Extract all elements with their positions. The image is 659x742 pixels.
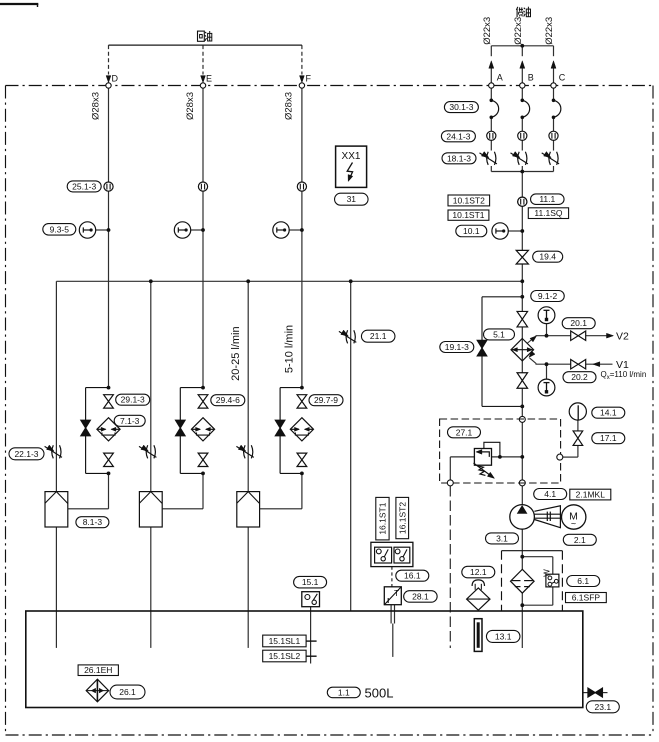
svg-text:A: A	[497, 73, 503, 83]
svg-text:18.1-3: 18.1-3	[447, 153, 471, 163]
svg-text:11.1: 11.1	[539, 194, 555, 204]
svg-text:B: B	[528, 73, 534, 83]
svg-text:XX1: XX1	[342, 151, 361, 162]
svg-text:28.1: 28.1	[412, 591, 429, 601]
svg-text:6.1: 6.1	[577, 576, 589, 586]
svg-text:23.1: 23.1	[595, 702, 612, 712]
svg-text:16.1ST1: 16.1ST1	[378, 502, 388, 534]
svg-text:26.1EH: 26.1EH	[84, 665, 112, 675]
svg-text:15.1SL1: 15.1SL1	[269, 636, 301, 646]
svg-text:7.1-3: 7.1-3	[120, 416, 140, 426]
svg-text:Ø28x3: Ø28x3	[284, 92, 295, 120]
svg-text:31: 31	[347, 194, 357, 204]
svg-text:10.1ST2: 10.1ST2	[453, 195, 485, 205]
svg-text:Ø22x3: Ø22x3	[513, 17, 524, 45]
svg-text:25.1-3: 25.1-3	[72, 181, 96, 191]
svg-text:T: T	[394, 588, 399, 598]
svg-text:20.2: 20.2	[571, 372, 588, 382]
svg-text:22.1-3: 22.1-3	[14, 449, 38, 459]
svg-text:29.4-6: 29.4-6	[216, 395, 240, 405]
svg-text:2.1MKL: 2.1MKL	[576, 490, 606, 500]
svg-text:20.1: 20.1	[570, 318, 587, 328]
svg-text:5-10 l/min: 5-10 l/min	[284, 325, 296, 373]
svg-text:16.1ST2: 16.1ST2	[397, 502, 407, 534]
svg-text:17.1: 17.1	[600, 433, 617, 443]
svg-text:Ø28x3: Ø28x3	[90, 92, 101, 120]
svg-text:Ø28x3: Ø28x3	[185, 92, 196, 120]
svg-text:29.7-9: 29.7-9	[314, 395, 338, 405]
svg-text:C: C	[559, 73, 566, 83]
svg-text:F: F	[306, 74, 312, 84]
svg-text:15.1: 15.1	[302, 577, 319, 587]
svg-text:~: ~	[571, 518, 576, 528]
svg-text:2.1: 2.1	[574, 535, 586, 545]
svg-text:13.1: 13.1	[495, 631, 512, 641]
svg-text:11.1SQ: 11.1SQ	[534, 208, 563, 218]
svg-text:19.4: 19.4	[539, 252, 556, 262]
svg-text:1.1: 1.1	[338, 687, 350, 697]
svg-text:E: E	[206, 74, 212, 84]
svg-text:20-25 l/min: 20-25 l/min	[230, 326, 242, 380]
svg-text:3.1: 3.1	[496, 533, 508, 543]
svg-text:V2: V2	[616, 331, 629, 343]
svg-text:14.1: 14.1	[600, 408, 617, 418]
svg-text:Ø22x3: Ø22x3	[544, 17, 555, 45]
svg-text:W: W	[542, 569, 551, 577]
svg-text:15.1SL2: 15.1SL2	[269, 651, 301, 661]
svg-text:19.1-3: 19.1-3	[445, 342, 469, 352]
svg-text:8.1-3: 8.1-3	[83, 517, 103, 527]
svg-text:10.1: 10.1	[463, 226, 480, 236]
svg-text:12.1: 12.1	[470, 567, 487, 577]
svg-text:29.1-3: 29.1-3	[121, 395, 145, 405]
svg-text:Ø22x3: Ø22x3	[482, 17, 493, 45]
svg-text:30.1-3: 30.1-3	[449, 102, 473, 112]
svg-text:21.1: 21.1	[370, 331, 387, 341]
svg-text:26.1: 26.1	[119, 687, 136, 697]
svg-text:9.1-2: 9.1-2	[538, 291, 558, 301]
svg-text:27.1: 27.1	[456, 427, 473, 437]
svg-text:16.1: 16.1	[404, 571, 421, 581]
svg-text:500L: 500L	[365, 685, 394, 700]
svg-text:24.1-3: 24.1-3	[446, 131, 470, 141]
svg-text:4.1: 4.1	[544, 489, 556, 499]
svg-text:6.1SFP: 6.1SFP	[572, 593, 601, 603]
svg-text:5.1: 5.1	[493, 329, 505, 339]
svg-text:10.1ST1: 10.1ST1	[452, 210, 484, 220]
svg-text:D: D	[112, 74, 119, 84]
svg-text:9.3-5: 9.3-5	[50, 224, 70, 234]
